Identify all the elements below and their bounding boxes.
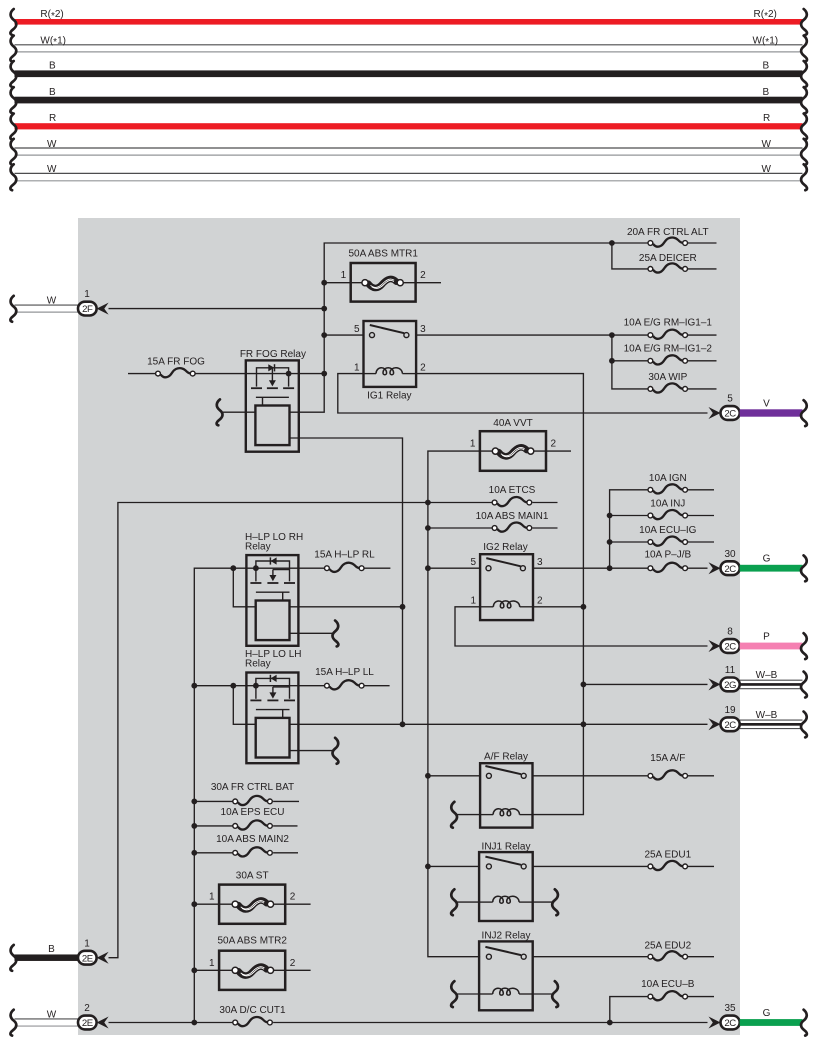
- svg-text:30A WIP: 30A WIP: [648, 372, 687, 383]
- svg-text:V: V: [763, 399, 770, 410]
- svg-text:B: B: [48, 944, 55, 955]
- wire 40A VVT pin2 lead: [534, 450, 571, 452]
- fuse 10A P-J/B: [644, 550, 691, 572]
- connector 2E pin 2 (left, W wire): [10, 1003, 108, 1036]
- node bus194 / 10A EPS ECU: [191, 823, 197, 829]
- wire 10A ECU-B fuse outlet: [688, 996, 714, 998]
- connector 2C pin 35 (right, G wire): [709, 1003, 807, 1036]
- wire W top harness row 7: [10, 164, 807, 190]
- wire 10A ABS MAIN1 row: [428, 527, 492, 529]
- connector 2F pin 1 (left, W wire): [10, 289, 108, 322]
- svg-text:G: G: [763, 1008, 771, 1019]
- node IGN bus / 10A INJ: [607, 513, 613, 519]
- wire INJ2 relay coil output to break: [533, 993, 554, 995]
- svg-text:10A ETCS: 10A ETCS: [489, 485, 536, 496]
- node top line / ALT-DEICER branch: [609, 240, 615, 246]
- node H-LP LH internal: [253, 683, 259, 689]
- wire 15A H-LP LL fuse outlet: [364, 685, 389, 687]
- relay A/F Relay: [480, 752, 532, 828]
- wire H-LP LO LH relay feed row: [194, 685, 324, 687]
- svg-text:Relay: Relay: [245, 541, 271, 552]
- svg-text:G: G: [763, 554, 771, 565]
- wire 50A ABS MTR1 pin1 lead: [324, 282, 362, 284]
- fuse 25A EDU1: [644, 850, 691, 870]
- break squiggle INJ2 coil input: [451, 981, 457, 1007]
- node bus428 / IG2 pin5: [425, 565, 431, 571]
- svg-text:10A ECU–B: 10A ECU–B: [641, 979, 695, 990]
- wire 2G-11 W-B row: [583, 683, 707, 685]
- wire INJ1 relay switch output to 25A EDU1: [533, 865, 648, 867]
- fusible link 40A VVT: [470, 418, 557, 471]
- wire 10A ETCS fuse outlet: [532, 502, 557, 504]
- svg-text:2: 2: [420, 362, 426, 373]
- svg-text:P: P: [763, 632, 770, 643]
- fuse 10A EPS ECU: [221, 807, 285, 830]
- svg-text:10A IGN: 10A IGN: [649, 473, 687, 484]
- break squiggle INJ1 coil input: [451, 889, 457, 915]
- svg-text:5: 5: [471, 557, 477, 568]
- break squiggle H-LP RH lower output: [332, 621, 338, 647]
- wire 15A A/F fuse outlet: [688, 775, 714, 777]
- svg-text:B: B: [763, 61, 770, 72]
- svg-text:30A FR CTRL BAT: 30A FR CTRL BAT: [211, 782, 294, 793]
- svg-text:2C: 2C: [724, 642, 736, 653]
- svg-text:R(*2): R(*2): [40, 9, 63, 22]
- svg-text:5: 5: [354, 324, 360, 335]
- wire IG2 relay pin5 lead: [428, 567, 480, 569]
- fuse 15A H-LP RL: [314, 550, 375, 572]
- fusible link 50A ABS MTR2: [209, 936, 296, 990]
- wire main bus x=324 (top line to FR FOG relay output): [290, 243, 612, 412]
- svg-text:50A ABS MTR1: 50A ABS MTR1: [348, 248, 418, 259]
- connector 2E pin 1 (left, B wire): [10, 938, 108, 971]
- wire 50A ABS MTR2 pin2 lead: [274, 969, 311, 971]
- wire H-LP LO LH relay output to 2C-19 W-B row: [290, 723, 708, 725]
- wire 30A FR CTRL BAT branch: [194, 800, 232, 802]
- svg-text:B: B: [49, 61, 56, 72]
- node bus324 / FR FOG through: [321, 371, 327, 377]
- wire 10A E/G RM-IG1-1 fuse outlet: [688, 334, 717, 336]
- relay INJ2 Relay: [479, 931, 533, 1011]
- svg-text:IG2 Relay: IG2 Relay: [483, 542, 527, 553]
- wire H-LP LO RH relay output: [290, 606, 403, 608]
- svg-text:10A E/G RM–IG1–1: 10A E/G RM–IG1–1: [624, 318, 713, 329]
- wire 10A ABS MAIN2 fuse outlet: [273, 852, 298, 854]
- wire 10A EPS ECU fuse outlet: [273, 825, 297, 827]
- wire 10A INJ branch: [610, 515, 648, 517]
- fuse 15A A/F: [648, 753, 688, 779]
- svg-text:2: 2: [420, 270, 426, 281]
- wire 25A EDU2 fuse outlet: [688, 956, 714, 958]
- node H-LP RH feed / control branch: [230, 565, 236, 571]
- wire IG1 relay pin1 to 2C-5 V output row: [338, 374, 708, 413]
- wire 10A IGN fuse outlet: [688, 489, 714, 491]
- svg-text:10A E/G RM–IG1–2: 10A E/G RM–IG1–2: [624, 343, 713, 354]
- node bus402 / H-LP RH output: [400, 604, 406, 610]
- fuse 20A FR CTRL ALT: [627, 227, 709, 246]
- svg-text:3: 3: [537, 557, 543, 568]
- svg-text:Relay: Relay: [245, 659, 271, 670]
- wire 10A INJ fuse outlet: [688, 515, 714, 517]
- wire 10A ABS MAIN2 branch: [194, 852, 232, 854]
- svg-text:A/F Relay: A/F Relay: [484, 752, 528, 763]
- wire 30A WIP fuse outlet: [688, 388, 717, 390]
- wire 40A VVT pin1 lead and bus x=428 down to INJ2 relay: [428, 451, 493, 957]
- MAINWIRES: [109, 243, 717, 1023]
- svg-text:B: B: [49, 87, 56, 98]
- fuse 10A ABS MAIN1: [476, 511, 549, 532]
- fusible link 30A ST: [209, 871, 296, 924]
- svg-text:INJ1 Relay: INJ1 Relay: [482, 841, 531, 852]
- fuse 10A ECU-B: [641, 979, 695, 1000]
- svg-text:W: W: [47, 295, 57, 306]
- node bus583 / 2G-11 row: [581, 682, 587, 688]
- svg-text:11: 11: [725, 665, 736, 676]
- svg-text:2C: 2C: [724, 564, 736, 575]
- wire 50A ABS MTR1 pin2 lead: [403, 282, 441, 284]
- svg-text:19: 19: [724, 705, 736, 716]
- wire 10A ECU-IG fuse outlet: [688, 541, 714, 543]
- svg-text:W: W: [47, 1009, 57, 1020]
- wire 10A ECU-B branch: [610, 997, 648, 1023]
- connector 2C pin 5 (right, V wire): [709, 394, 807, 427]
- fuse 10A E/G RM-IG1-2: [624, 343, 713, 364]
- node bus402 / 2C-19 row: [400, 721, 406, 727]
- node bus324 / IG1 pin5: [321, 332, 327, 338]
- fuse 30A FR CTRL BAT: [211, 782, 294, 805]
- svg-text:25A DEICER: 25A DEICER: [639, 253, 697, 264]
- svg-text:2: 2: [551, 439, 557, 450]
- wire IG2 relay pin1 to 2C-8 P output row: [455, 607, 708, 646]
- svg-text:B: B: [763, 87, 770, 98]
- node bus583 / 2C-19 row: [581, 721, 587, 727]
- svg-text:W: W: [47, 164, 57, 175]
- fuse 10A ABS MAIN2: [216, 834, 289, 857]
- svg-text:IG1 Relay: IG1 Relay: [367, 391, 411, 402]
- node IG1 pin3 row / RM-IG1 branch: [609, 332, 615, 338]
- wire IG2 relay pin2 lead: [533, 606, 583, 608]
- break squiggle A/F relay coil input: [451, 802, 457, 828]
- svg-text:10A P–J/B: 10A P–J/B: [644, 550, 691, 561]
- svg-text:30A D/C CUT1: 30A D/C CUT1: [219, 1005, 286, 1016]
- wire 25A DEICER fuse outlet: [688, 268, 717, 270]
- wire H-LP LO LH relay lower output to break: [290, 750, 334, 752]
- node IGN bus / 10A ECU-IG: [607, 539, 613, 545]
- break squiggle INJ1 coil output: [552, 889, 558, 915]
- svg-text:2: 2: [290, 958, 296, 969]
- svg-text:1: 1: [84, 938, 90, 949]
- wire R top harness row 5: [10, 113, 807, 139]
- svg-text:10A INJ: 10A INJ: [650, 499, 685, 510]
- svg-text:30A ST: 30A ST: [236, 871, 269, 882]
- svg-text:8: 8: [727, 627, 733, 638]
- svg-text:1: 1: [354, 362, 360, 373]
- svg-text:10A ABS MAIN1: 10A ABS MAIN1: [476, 511, 549, 522]
- wire 10A ETCS row and left bus x=118 to 2E-1: [109, 503, 493, 958]
- svg-text:W: W: [762, 139, 772, 150]
- wire 50A ABS MTR2 pin1 lead: [194, 969, 232, 971]
- svg-text:W(*1): W(*1): [40, 36, 66, 49]
- wire 30A FR CTRL BAT fuse outlet: [273, 800, 299, 802]
- wire H-LP LO RH relay control branch: [233, 568, 255, 607]
- connector 2C pin 8 (right, P wire): [709, 627, 807, 660]
- wire A/F relay switch feed: [428, 775, 480, 777]
- junction block body: [78, 218, 740, 1035]
- node bus583 / IG2 pin2: [581, 604, 587, 610]
- relay INJ1 Relay: [479, 841, 533, 921]
- node bus428 / 10A ABS MAIN1: [425, 525, 431, 531]
- wire 15A H-LP RL fuse outlet: [364, 567, 390, 569]
- svg-text:30: 30: [724, 549, 736, 560]
- wire IG1 relay pin5 lead: [324, 334, 363, 336]
- svg-text:20A FR CTRL ALT: 20A FR CTRL ALT: [627, 227, 709, 238]
- fuse 15A H-LP LL: [315, 667, 374, 689]
- node H-LP LH feed / control branch: [230, 683, 236, 689]
- wire 30A ST pin1 lead: [194, 903, 232, 905]
- svg-text:2: 2: [290, 892, 296, 903]
- wire 2F pin1 feed row: [109, 308, 325, 310]
- svg-text:15A H–LP RL: 15A H–LP RL: [314, 550, 375, 561]
- relay H-LP LO RH Relay (solid state): [245, 532, 303, 646]
- wire INJ1 relay coil input from break: [457, 901, 480, 903]
- node bus428 / 10A ETCS: [425, 500, 431, 506]
- svg-text:W–B: W–B: [756, 670, 778, 681]
- fusible link 50A ABS MTR1: [341, 248, 426, 301]
- break squiggle INJ2 coil output: [552, 981, 558, 1007]
- fuse 15A FR FOG: [147, 356, 205, 377]
- svg-text:1: 1: [209, 958, 215, 969]
- svg-text:2C: 2C: [724, 720, 736, 731]
- wire bottom feed row 2E-2 to 2C-35: [109, 1022, 233, 1024]
- svg-text:INJ2 Relay: INJ2 Relay: [482, 931, 531, 942]
- svg-text:10A EPS ECU: 10A EPS ECU: [221, 807, 285, 818]
- wire 10A EPS ECU branch: [194, 825, 232, 827]
- break squiggle H-LP LH lower output: [332, 738, 338, 764]
- wire 10A E/G RM-IG1-2 branch: [612, 360, 648, 362]
- wire FR FOG relay lower output down bus x=402: [290, 438, 403, 724]
- fuse 10A ECU-IG: [639, 525, 696, 546]
- svg-text:2: 2: [84, 1003, 90, 1014]
- node bus428 / INJ1 relay: [425, 864, 431, 870]
- svg-text:10A ABS MAIN2: 10A ABS MAIN2: [216, 834, 289, 845]
- svg-text:25A EDU2: 25A EDU2: [644, 940, 691, 951]
- svg-text:FR FOG Relay: FR FOG Relay: [240, 349, 306, 360]
- wire IG1 relay pin2 down bus x=583 to A/F relay coil: [416, 374, 583, 815]
- wire H-LP LO RH relay lower output to break: [290, 632, 334, 634]
- wire INJ2 relay switch output to 25A EDU2: [533, 956, 648, 958]
- wire H-LP LO LH relay control branch: [233, 686, 255, 725]
- svg-text:40A VVT: 40A VVT: [493, 418, 532, 429]
- svg-text:2: 2: [537, 596, 543, 607]
- relay IG1 Relay: [354, 321, 426, 402]
- relay FR FOG Relay (solid state): [240, 349, 306, 452]
- fuse 30A WIP: [648, 372, 688, 393]
- node bus194 / H-LP LH feed: [191, 683, 197, 689]
- node bus194 / 10A ABS MAIN2: [191, 850, 197, 856]
- wire IG2 relay pin3 row to 10A P-J/B: [533, 567, 648, 569]
- fuse 25A DEICER: [639, 253, 697, 272]
- svg-text:1: 1: [471, 596, 477, 607]
- svg-text:W(*1): W(*1): [753, 36, 779, 49]
- wire W(*1) top harness row 2: [10, 36, 807, 62]
- node bus194 / 50A ABS MTR2: [191, 967, 197, 973]
- fuse 10A IGN: [648, 473, 688, 494]
- node bus324 / 2F row: [321, 306, 327, 312]
- svg-text:10A ECU–IG: 10A ECU–IG: [639, 525, 696, 536]
- wire B top harness row 4: [10, 87, 807, 113]
- wire IGN fuse bank bus x=610: [610, 490, 648, 568]
- fuse 30A D/C CUT1: [219, 1005, 286, 1026]
- fuse 10A E/G RM-IG1-1: [624, 318, 713, 339]
- svg-text:R: R: [763, 113, 770, 124]
- wire INJ1 relay coil output to break: [533, 901, 554, 903]
- svg-text:R(*2): R(*2): [754, 9, 777, 22]
- wire INJ1 relay switch feed: [428, 865, 479, 867]
- connector 2C pin 19 (right, W-B wire): [709, 705, 807, 737]
- node bus324 / 50A ABS MTR1: [321, 280, 327, 286]
- node H-LP RH internal: [253, 565, 259, 571]
- svg-text:1: 1: [84, 289, 90, 300]
- wire B top harness row 3: [10, 61, 807, 87]
- svg-text:2E: 2E: [82, 1018, 93, 1029]
- relay H-LP LO LH Relay (solid state): [245, 649, 302, 763]
- wire 10A ABS MAIN1 fuse outlet: [532, 527, 557, 529]
- svg-text:2G: 2G: [724, 680, 736, 691]
- fuse 25A EDU2: [644, 940, 691, 960]
- wire 10A E/G RM-IG1-2 fuse outlet: [688, 360, 717, 362]
- fuse 10A INJ: [648, 499, 688, 520]
- svg-text:1: 1: [209, 892, 215, 903]
- break squiggle FR FOG relay control input: [217, 399, 223, 425]
- svg-text:1: 1: [470, 439, 476, 450]
- svg-text:50A ABS MTR2: 50A ABS MTR2: [217, 936, 287, 947]
- svg-text:15A H–LP LL: 15A H–LP LL: [315, 667, 374, 678]
- wire FR FOG relay control input from break: [221, 411, 255, 413]
- svg-text:W–B: W–B: [756, 710, 778, 721]
- fuse 10A ETCS: [489, 485, 536, 506]
- node bus194 / 30A ST: [191, 901, 197, 907]
- svg-text:3: 3: [420, 324, 426, 335]
- node bus194 / 30A FR CTRL BAT: [191, 799, 197, 805]
- svg-text:2E: 2E: [82, 953, 93, 964]
- wire E/G RM-IG1 / WIP branch bus: [612, 335, 648, 389]
- svg-text:W: W: [762, 164, 772, 175]
- svg-text:1: 1: [341, 270, 347, 281]
- wire W top harness row 6: [10, 139, 807, 165]
- svg-text:35: 35: [724, 1003, 736, 1014]
- wire IG1 relay pin3 row: [416, 334, 612, 336]
- connector 2C pin 30 (right, G wire): [709, 549, 807, 582]
- wire R(*2) top harness row 1: [10, 9, 807, 35]
- wire 10A ECU-IG branch: [610, 541, 648, 543]
- wire 10A P-J/B fuse outlet to 2C-30: [688, 567, 708, 569]
- wire 20A FR CTRL ALT fuse outlet: [688, 242, 717, 244]
- svg-text:2F: 2F: [82, 304, 93, 315]
- node IGN bus / IG2 pin3 row: [607, 565, 613, 571]
- svg-text:R: R: [49, 113, 56, 124]
- connector 2G pin 11 (right, W-B wire): [709, 665, 807, 698]
- svg-text:2C: 2C: [724, 409, 736, 420]
- svg-text:W: W: [47, 139, 57, 150]
- wire 15A FR FOG fuse row / FR FOG relay through wire: [128, 373, 155, 375]
- svg-text:25A EDU1: 25A EDU1: [644, 850, 691, 861]
- node bottom feed row / ECU-B branch: [607, 1020, 613, 1026]
- wire 25A EDU1 fuse outlet: [688, 865, 714, 867]
- wire 30A ST pin2 lead: [274, 903, 311, 905]
- node RM-IG1-2 branch: [609, 358, 615, 364]
- wire 20A FR CTRL ALT / 25A DEICER branch bus: [612, 243, 648, 269]
- svg-text:2C: 2C: [724, 1018, 736, 1029]
- wire INJ2 relay coil input from break: [457, 993, 480, 995]
- node bus428 / A/F relay: [425, 773, 431, 779]
- wire A/F relay switch output to 15A A/F: [533, 775, 649, 777]
- svg-text:15A A/F: 15A A/F: [650, 753, 685, 764]
- node bus194 / bottom feed row: [191, 1020, 197, 1026]
- relay IG2 Relay: [471, 542, 543, 620]
- node FR FOG relay internal: [286, 371, 292, 377]
- wire A/F relay coil input from break: [457, 814, 481, 816]
- svg-text:15A FR FOG: 15A FR FOG: [147, 356, 205, 367]
- wire H-LP LO RH relay feed row and bus x=194 down: [194, 568, 324, 1022]
- svg-text:5: 5: [727, 394, 733, 405]
